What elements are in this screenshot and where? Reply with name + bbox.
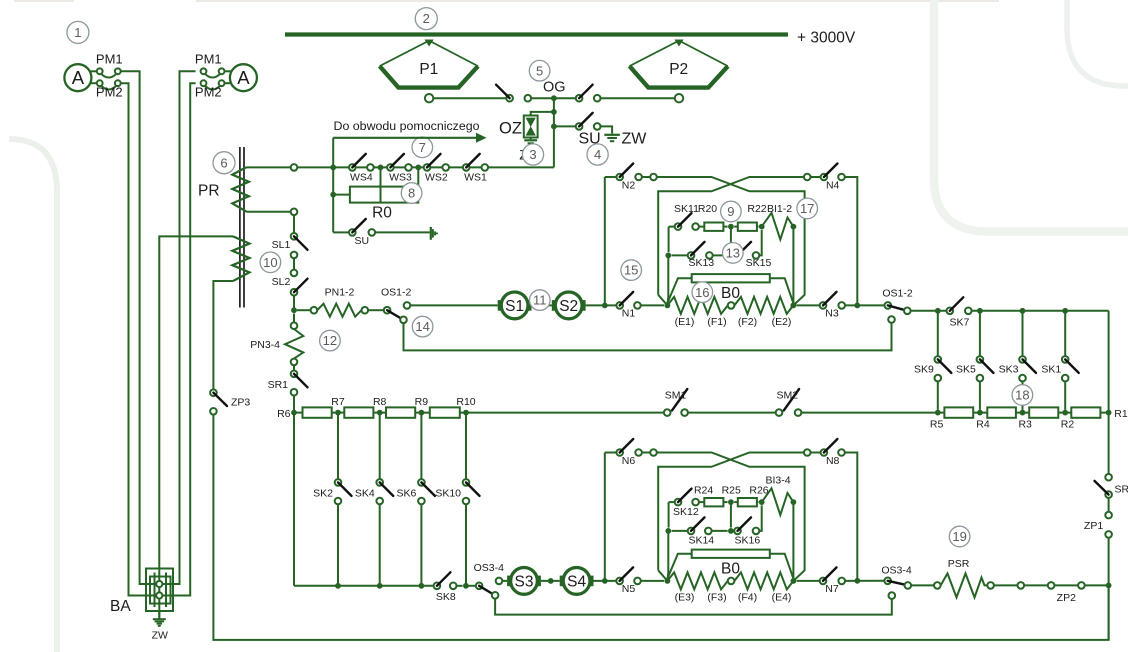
R row rail left	[294, 412, 664, 414]
wire SK13 drop	[666, 255, 669, 305]
node R20-R22	[728, 224, 734, 230]
svg-text:SU: SU	[355, 235, 370, 247]
node R24-R25	[728, 499, 734, 505]
svg-text:P2: P2	[669, 61, 688, 78]
PSR right terminal	[987, 582, 994, 589]
OS1-2 top contact	[404, 302, 411, 309]
node R5	[930, 410, 944, 431]
node R25-BI	[759, 499, 765, 505]
marker 12	[320, 330, 341, 351]
switch WS3	[387, 154, 412, 184]
motor S4	[560, 568, 594, 595]
earthing switch SU	[554, 113, 612, 134]
svg-text:SL2: SL2	[272, 276, 291, 288]
svg-text:R24: R24	[694, 485, 713, 497]
SK7 rail a	[911, 310, 947, 312]
svg-text:SK16: SK16	[735, 535, 761, 547]
svg-text:SK6: SK6	[397, 488, 417, 500]
wire N4 corner	[845, 177, 858, 305]
pantograph P1 contact triangle	[425, 40, 434, 47]
wire N8 corner	[845, 453, 858, 581]
switch SK7	[947, 297, 972, 328]
label R22	[747, 203, 766, 215]
catenary +3000V bus	[285, 32, 788, 36]
node ZP2 junction	[1106, 583, 1112, 589]
node OZ tap	[551, 109, 557, 115]
battery BA box	[146, 569, 173, 612]
resistor R7	[303, 407, 332, 417]
R row rail right	[801, 412, 1108, 414]
marker 9	[721, 201, 742, 222]
node S4 junction	[602, 578, 608, 584]
node R1	[1106, 408, 1128, 420]
decor left rounded corner	[9, 139, 57, 652]
svg-text:SK13: SK13	[688, 257, 714, 269]
svg-text:SK3: SK3	[999, 364, 1019, 376]
wire S3-S4	[541, 580, 560, 582]
side ground mark	[431, 227, 437, 240]
wire SK16 up	[759, 505, 761, 531]
wire PN node down	[293, 314, 295, 323]
resistor R10	[430, 407, 460, 417]
svg-text:19: 19	[952, 529, 966, 544]
svg-text:R10: R10	[456, 396, 475, 408]
wire S4 to N5	[594, 580, 617, 582]
svg-text:6: 6	[220, 155, 227, 170]
label PN1-2	[325, 286, 355, 298]
+3000V label	[797, 30, 856, 47]
wire right edge drop	[1108, 311, 1110, 474]
svg-text:SK12: SK12	[673, 506, 699, 518]
svg-text:A: A	[237, 67, 250, 88]
SK7 rail b	[972, 310, 1109, 312]
wire SL drop1	[293, 215, 295, 233]
marker 11	[530, 290, 551, 311]
B0 upper tap	[728, 302, 735, 309]
wire PM1-left down	[121, 71, 159, 584]
node SK6 bottom	[419, 583, 425, 589]
resistor R2	[1071, 407, 1100, 417]
resistor PN1-2	[317, 304, 361, 317]
svg-text:R20: R20	[698, 203, 717, 215]
return wire upper	[404, 323, 892, 351]
wire N6 ext	[642, 449, 657, 456]
svg-text:BA: BA	[110, 598, 131, 615]
wire SK11 corner	[668, 227, 670, 253]
marker 15	[621, 260, 642, 281]
resistor B0 lower left	[667, 572, 727, 589]
svg-text:2: 2	[423, 11, 430, 26]
svg-text:ZP1: ZP1	[1084, 520, 1103, 532]
node R22-BI	[759, 224, 765, 230]
marker 3	[522, 144, 543, 165]
svg-text:1: 1	[74, 25, 81, 40]
wire SU stub	[375, 231, 430, 233]
wire ZP2 to edge	[1085, 584, 1109, 586]
svg-text:R25: R25	[722, 485, 741, 497]
switch SK6 column	[397, 413, 435, 586]
node R8	[373, 396, 387, 415]
OS3-4 right lower contact	[889, 592, 896, 599]
svg-text:N8: N8	[826, 455, 840, 467]
switch SK4 column	[355, 413, 393, 586]
wire R0 tap right	[417, 167, 419, 186]
resistor PSR	[941, 574, 988, 598]
node S3-S4	[548, 578, 554, 584]
wire SK12 corner	[668, 502, 670, 527]
svg-text:SL1: SL1	[272, 239, 291, 251]
svg-text:SK8: SK8	[436, 591, 456, 603]
resistor R9	[386, 407, 415, 417]
svg-text:16: 16	[695, 285, 709, 300]
node N7 junction	[854, 578, 860, 584]
svg-text:N6: N6	[622, 455, 636, 467]
svg-text:PSR: PSR	[948, 558, 970, 570]
svg-text:R6: R6	[277, 408, 291, 420]
switch N8	[804, 439, 845, 467]
P2 terminal	[675, 94, 683, 102]
label BI3-4	[765, 475, 790, 487]
switch SK11	[669, 203, 700, 230]
node SK4 bottom	[377, 583, 383, 589]
svg-text:OS1-2: OS1-2	[381, 286, 412, 298]
ammeter A right	[201, 64, 257, 91]
switch SK14	[672, 517, 715, 546]
wire SK13-SK15	[713, 254, 728, 256]
OS1-2 right lower contact	[888, 316, 895, 323]
marker 16	[692, 282, 713, 303]
switch N6	[616, 439, 641, 467]
label PSR	[948, 558, 970, 570]
resistor PN3-4	[285, 329, 303, 359]
svg-text:R7: R7	[331, 396, 345, 408]
label OS3-4 right	[881, 564, 912, 576]
P1 terminal	[425, 94, 433, 102]
node SK9 top	[935, 308, 941, 314]
svg-text:OS3-4: OS3-4	[881, 564, 912, 576]
label R24	[694, 485, 713, 497]
label B0 upper	[721, 285, 740, 302]
node WS-A	[330, 165, 336, 171]
svg-text:3: 3	[529, 147, 536, 162]
svg-text:OS1-2: OS1-2	[882, 287, 913, 299]
svg-text:WS1: WS1	[464, 172, 487, 184]
marker 6	[213, 152, 235, 174]
B0 lower slider	[667, 550, 793, 579]
switch SK9 column	[914, 311, 951, 410]
motor S1	[498, 292, 532, 319]
svg-text:S4: S4	[567, 573, 586, 590]
resistor R4	[987, 407, 1016, 417]
node R0 tap	[330, 192, 336, 198]
marker 13	[723, 243, 744, 264]
pantograph P1	[380, 41, 478, 88]
PN1-2 right terminal	[362, 307, 384, 314]
svg-text:R1: R1	[1114, 408, 1128, 420]
wire SR2-ZP1	[1108, 498, 1110, 512]
wire R6 column	[293, 413, 295, 586]
svg-text:(E4): (E4)	[772, 592, 792, 604]
labels E1 F1 F2 E2	[675, 316, 792, 328]
svg-text:B0: B0	[721, 285, 740, 302]
wire R0 tap mid	[380, 167, 382, 202]
R row rail mid	[688, 412, 776, 414]
svg-text:N2: N2	[622, 180, 636, 192]
cross wire lower-a	[657, 453, 805, 581]
svg-text:7: 7	[419, 140, 426, 155]
cross wire lower-b	[658, 453, 804, 571]
PR core	[240, 147, 244, 308]
ground ZW at SU	[604, 135, 620, 141]
wire S1-S2	[532, 304, 552, 306]
svg-text:S2: S2	[559, 298, 578, 315]
svg-text:PM1: PM1	[195, 52, 222, 67]
svg-text:+ 3000V: + 3000V	[797, 30, 856, 47]
node OG junction	[551, 95, 557, 101]
marker 14	[412, 316, 433, 337]
B0 upper slider	[667, 274, 793, 303]
svg-text:(E3): (E3)	[675, 592, 695, 604]
svg-text:18: 18	[1015, 388, 1029, 403]
switch WS1	[463, 154, 488, 184]
svg-text:WS3: WS3	[389, 172, 412, 184]
label R20	[698, 203, 717, 215]
wire PM2-right down	[159, 83, 195, 595]
inductor BI3-4	[762, 488, 794, 515]
svg-text:ZW: ZW	[152, 630, 168, 642]
label ZW under BA	[152, 630, 168, 642]
arrester OZ	[524, 116, 538, 144]
svg-text:Do obwodu pomocniczego: Do obwodu pomocniczego	[334, 119, 480, 133]
resistor R24	[699, 498, 728, 506]
wire R20 tap down	[730, 227, 732, 253]
decor top edge line	[14, 0, 999, 2]
node B0R lower	[791, 578, 797, 584]
wire WS-A drop	[332, 138, 334, 233]
svg-text:ZW: ZW	[622, 131, 648, 148]
wire ZP2 mid	[1024, 582, 1054, 589]
svg-text:BI3-4: BI3-4	[765, 475, 790, 487]
svg-text:(F2): (F2)	[738, 316, 757, 328]
svg-text:SM1: SM1	[665, 390, 687, 402]
contactor SL1	[272, 233, 308, 258]
resistor B0 lower right	[734, 572, 793, 589]
switch ZP1	[1084, 512, 1112, 538]
label R0	[372, 205, 392, 222]
ground ZW at BA	[153, 619, 166, 626]
N6 rail start	[605, 452, 617, 454]
marker 2	[415, 8, 437, 30]
svg-text:SM2: SM2	[777, 390, 799, 402]
label R26	[749, 485, 768, 497]
node SK5 top	[977, 308, 983, 314]
switch SK8	[434, 572, 457, 603]
return wire lower	[495, 599, 892, 615]
svg-text:S3: S3	[515, 573, 534, 590]
node B0L upper	[665, 303, 671, 309]
node S2 junction	[602, 303, 608, 309]
switch SU lower	[333, 219, 375, 247]
svg-text:WS4: WS4	[350, 172, 373, 184]
node WS-C	[415, 165, 421, 171]
node SK16 mid	[728, 528, 734, 534]
resistor R5	[944, 407, 973, 417]
node PN junction	[291, 307, 297, 313]
label SU	[579, 131, 601, 148]
switch SK16	[734, 517, 760, 546]
svg-text:(E2): (E2)	[772, 316, 792, 328]
resistor R22	[734, 223, 758, 231]
svg-text:R2: R2	[1061, 419, 1075, 431]
wire SK14 drop	[666, 531, 669, 581]
pantograph P2	[630, 41, 728, 88]
changeover OS3-4 left	[476, 583, 499, 599]
svg-text:N4: N4	[826, 180, 840, 192]
label R25	[722, 485, 741, 497]
node SK2 bottom	[335, 583, 341, 589]
labels E3 F3 F4 E4	[675, 592, 792, 604]
marker 1	[67, 21, 89, 43]
cross wire upper-a	[657, 177, 805, 305]
cross wire upper-b	[658, 177, 804, 295]
wire BI3 drop	[792, 502, 794, 581]
switch SK5 column	[956, 311, 993, 410]
node R2	[1061, 410, 1075, 431]
svg-text:SK2: SK2	[313, 488, 333, 500]
svg-text:13: 13	[726, 246, 740, 261]
node R7	[331, 396, 345, 415]
marker 10	[260, 252, 281, 273]
svg-text:SK7: SK7	[949, 316, 969, 328]
wire SK15 up	[759, 230, 761, 255]
svg-text:PM2: PM2	[195, 85, 222, 100]
switch WS2	[424, 154, 449, 184]
wire S2 to N1	[586, 304, 617, 306]
svg-text:ZP2: ZP2	[1057, 592, 1076, 604]
node SK15 mid	[728, 253, 734, 259]
svg-text:SR2: SR2	[1115, 483, 1128, 495]
svg-text:(E1): (E1)	[675, 316, 695, 328]
wire SK14-SK16	[712, 530, 728, 532]
switch WS4	[349, 154, 374, 184]
svg-text:PN3-4: PN3-4	[250, 339, 280, 351]
svg-text:SK9: SK9	[914, 364, 934, 376]
contactor SL2	[291, 270, 308, 296]
node SK1 top	[1062, 308, 1068, 314]
svg-text:SK10: SK10	[435, 488, 461, 500]
wire PM2-left down	[121, 83, 159, 595]
resistor R0	[350, 187, 418, 203]
changeover OS1-2 right	[885, 302, 911, 314]
wire PR to ZP3	[213, 281, 233, 389]
svg-text:PM2: PM2	[96, 85, 123, 100]
switch N2	[616, 164, 641, 192]
label Do obwodu pomocniczego	[334, 119, 480, 133]
label ZW	[622, 131, 648, 148]
inductor BI1-2	[762, 213, 794, 240]
switch SK10 column	[435, 413, 479, 586]
decor top-right corner	[1067, 0, 1128, 86]
svg-text:17: 17	[800, 201, 814, 216]
node SK14 left	[665, 528, 671, 534]
label BA	[110, 598, 131, 615]
cross slant left lower	[658, 570, 667, 581]
wire PR to BA	[159, 236, 233, 618]
svg-text:S1: S1	[505, 298, 524, 315]
svg-text:OS3-4: OS3-4	[474, 562, 505, 574]
PR upper winding	[232, 167, 249, 211]
node R4	[976, 410, 990, 431]
label B0 lower	[721, 561, 740, 578]
svg-text:N1: N1	[622, 308, 636, 320]
svg-text:R0: R0	[372, 205, 392, 222]
svg-text:OG: OG	[543, 80, 566, 96]
cross slant left	[658, 295, 667, 306]
node B0L lower	[665, 578, 671, 584]
switch ZP2	[1054, 582, 1084, 604]
svg-text:R5: R5	[930, 419, 944, 431]
wire PM1-right down	[159, 71, 195, 584]
switch SM1	[664, 389, 688, 416]
svg-text:SR1: SR1	[268, 379, 289, 391]
switch SK13	[672, 242, 715, 269]
label OS1-2 right	[882, 287, 913, 299]
svg-text:N3: N3	[825, 308, 839, 320]
labels PM1 PM2 right	[195, 52, 222, 100]
marker 5	[529, 60, 550, 81]
svg-text:4: 4	[594, 147, 601, 162]
wire to SR1	[293, 365, 295, 370]
svg-text:SK11: SK11	[674, 203, 699, 215]
switch ZP3	[210, 389, 250, 414]
marker 4	[587, 144, 608, 165]
svg-text:PR: PR	[198, 182, 220, 199]
wire ZP1 down	[1108, 538, 1110, 640]
label SL2	[272, 276, 291, 288]
marker 8	[401, 183, 422, 204]
OS3-4 top contact	[496, 578, 503, 585]
node SK13 left	[665, 253, 671, 259]
wire to PN1-2	[297, 307, 317, 314]
switch SK12	[669, 489, 699, 518]
label PR	[198, 182, 220, 199]
switch N7	[797, 567, 885, 594]
disconnector OG right	[554, 85, 675, 102]
labels PM1 PM2 left	[96, 52, 123, 100]
svg-text:11: 11	[533, 293, 547, 308]
PR lower winding	[232, 236, 249, 281]
lower rail	[294, 585, 434, 587]
resistor R8	[344, 407, 373, 417]
wire to OS3-4	[466, 585, 476, 587]
wire SK8 ext	[457, 585, 463, 587]
wire P1 to OG	[433, 97, 506, 99]
bottom rail	[213, 415, 1108, 640]
svg-text:14: 14	[415, 319, 429, 334]
resistor R20	[699, 223, 728, 231]
changeover OS1-2 left	[384, 307, 407, 323]
svg-text:SK5: SK5	[956, 364, 976, 376]
motor S3	[507, 568, 541, 595]
node B0R upper	[790, 303, 796, 309]
svg-text:(F3): (F3)	[707, 592, 726, 604]
wire up to N2	[604, 177, 606, 305]
label BI1-2	[767, 203, 792, 215]
switch SK1 column	[1041, 311, 1078, 410]
svg-text:12: 12	[323, 333, 337, 348]
svg-text:SK4: SK4	[355, 488, 375, 500]
BA ground stub	[158, 611, 160, 619]
